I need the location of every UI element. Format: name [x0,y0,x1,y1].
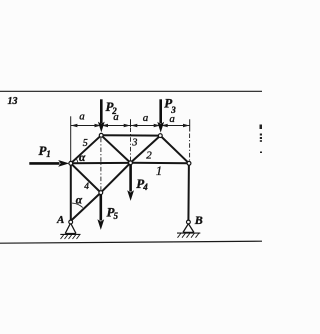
svg-text:1: 1 [46,149,51,159]
svg-text:4: 4 [142,182,148,192]
svg-text:3: 3 [131,137,137,148]
svg-text:5: 5 [114,211,119,221]
svg-text:4: 4 [84,182,89,192]
svg-text:α: α [79,152,86,164]
svg-text:A: A [56,214,64,226]
svg-text:B: B [194,213,203,227]
svg-text:a: a [113,111,119,123]
svg-text:13: 13 [8,96,18,107]
svg-text:α: α [76,194,83,206]
svg-text:a: a [169,113,175,125]
svg-text:1: 1 [156,164,162,178]
svg-text:a: a [143,112,149,124]
svg-text:2: 2 [146,149,152,161]
svg-text:a: a [79,111,85,123]
svg-text:5: 5 [83,138,88,149]
